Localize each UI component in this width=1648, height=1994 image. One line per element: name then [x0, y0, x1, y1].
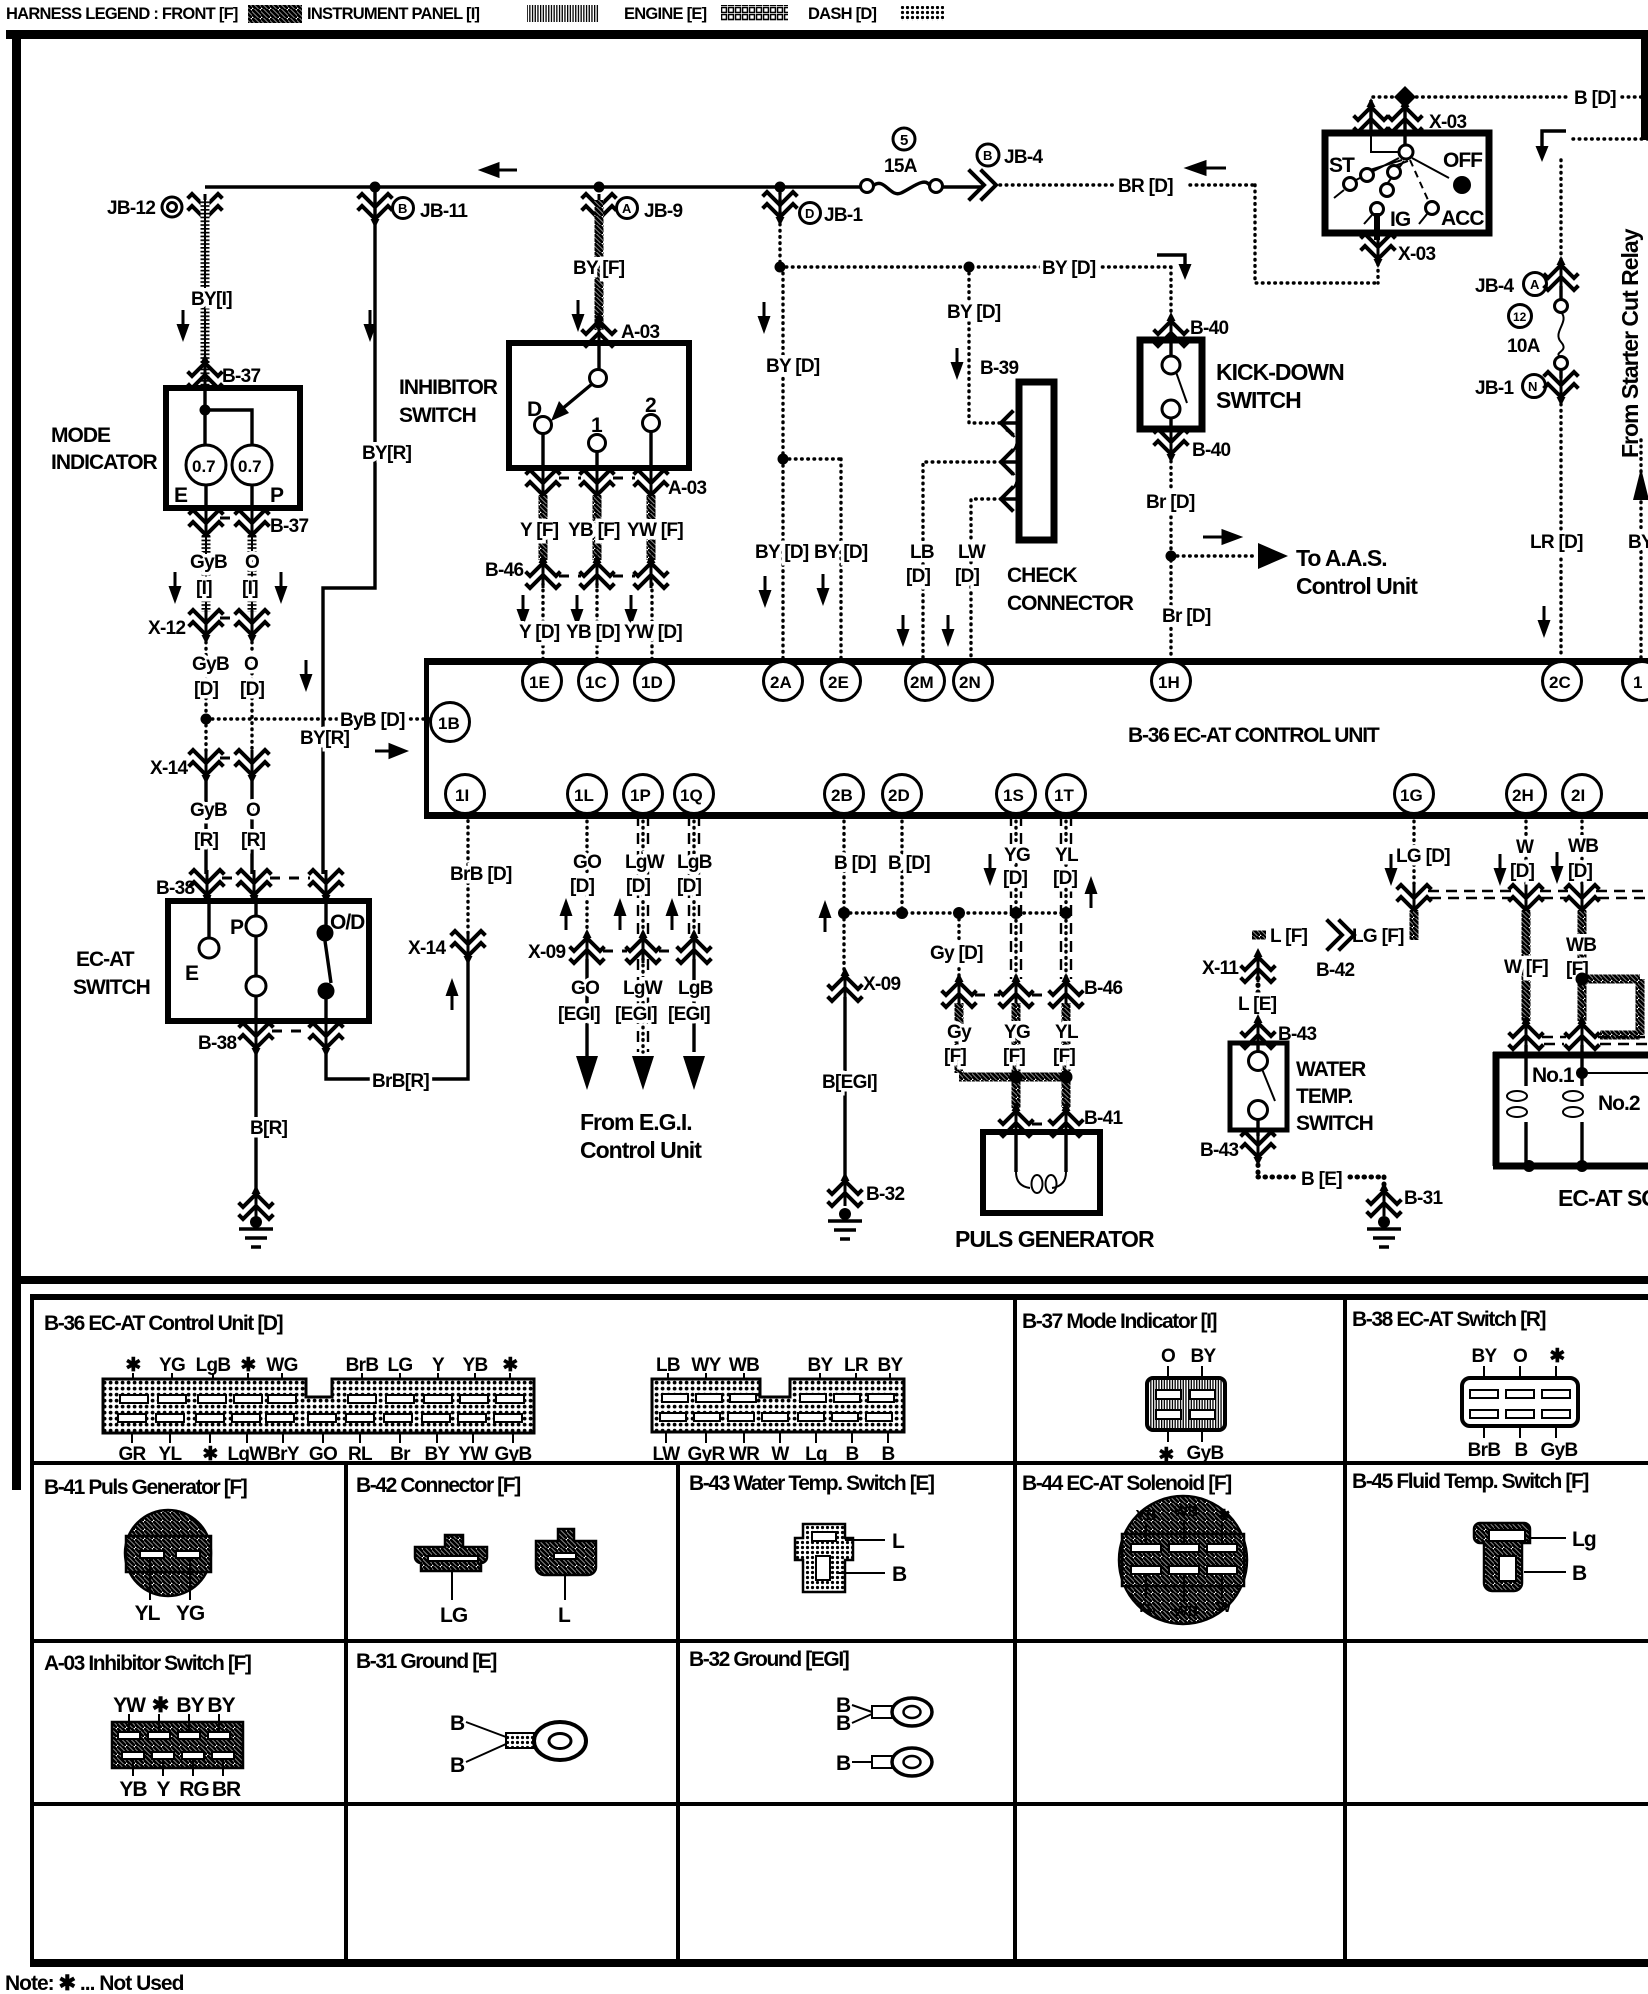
table column line x1015 — [1013, 1296, 1017, 1963]
svg-text:W [F]: W [F] — [1504, 957, 1548, 978]
connector X-14 right — [452, 931, 484, 965]
svg-text:X-11: X-11 — [1202, 958, 1239, 979]
EC-AT control unit left edge — [424, 658, 429, 819]
svg-text:W: W — [1516, 837, 1534, 858]
wire ByB [D] to pin 1B — [201, 714, 212, 725]
svg-text:A-03 Inhibitor Switch [F]: A-03 Inhibitor Switch [F] — [44, 1652, 251, 1675]
svg-text:INHIBITOR: INHIBITOR — [399, 376, 498, 399]
svg-text:B: B — [450, 1712, 465, 1735]
wire BY[I] JB-12 to B-37 — [201, 200, 210, 386]
svg-text:BY: BY — [808, 1355, 834, 1376]
svg-text:✱: ✱ — [502, 1355, 518, 1376]
svg-text:2: 2 — [645, 394, 656, 417]
svg-text:15A: 15A — [884, 156, 918, 177]
svg-text:B-39: B-39 — [980, 358, 1019, 379]
svg-text:WG: WG — [266, 1355, 297, 1376]
svg-text:B-41: B-41 — [1084, 1108, 1124, 1129]
svg-text:B[EGI]: B[EGI] — [822, 1072, 877, 1093]
svg-text:1Q: 1Q — [680, 786, 703, 805]
ground B-31 — [1368, 1182, 1400, 1216]
svg-text:2I: 2I — [1571, 786, 1585, 805]
dashed link row right — [1428, 891, 1648, 898]
svg-text:Br: Br — [390, 1444, 411, 1465]
svg-text:SWITCH: SWITCH — [73, 976, 150, 999]
svg-text:LgW: LgW — [623, 978, 663, 999]
wire B [D] from 2B — [842, 815, 845, 913]
svg-text:1D: 1D — [641, 673, 663, 692]
svg-text:MODE: MODE — [51, 424, 111, 447]
svg-text:LB: LB — [656, 1355, 680, 1376]
solenoid No.1 — [1524, 1045, 1527, 1166]
table column line x677 — [676, 1463, 680, 1963]
wire L [E] — [1256, 978, 1261, 1020]
connector B-40 top — [1155, 312, 1187, 346]
connector B-46 left — [527, 554, 559, 588]
connector B-45 drawing — [1474, 1523, 1596, 1591]
svg-text:B-46: B-46 — [485, 560, 524, 581]
junction diamond on B [D] — [1394, 86, 1416, 108]
svg-text:12: 12 — [1513, 310, 1527, 324]
svg-text:WR: WR — [729, 1444, 760, 1465]
svg-text:X-09: X-09 — [863, 974, 900, 995]
wire BY [D] to B-39 check connector — [969, 267, 1003, 423]
svg-text:Gy: Gy — [947, 1022, 972, 1043]
svg-text:0.7: 0.7 — [192, 457, 216, 476]
svg-text:O: O — [1161, 1346, 1175, 1367]
connector B-41 — [1000, 1102, 1032, 1136]
legend swatch DASH dots — [900, 6, 944, 21]
svg-text:✱: ✱ — [1158, 1445, 1174, 1466]
svg-text:2C: 2C — [1549, 673, 1571, 692]
svg-text:GR: GR — [118, 1444, 146, 1465]
svg-text:BY [F]: BY [F] — [573, 258, 625, 279]
svg-text:E: E — [174, 484, 188, 507]
svg-text:To A.A.S.: To A.A.S. — [1296, 545, 1387, 571]
svg-text:No.2: No.2 — [1598, 1092, 1640, 1115]
top bus wire — [205, 185, 982, 188]
svg-text:B-37: B-37 — [270, 516, 309, 537]
svg-text:✱: ✱ — [152, 1694, 169, 1717]
svg-text:B[R]: B[R] — [250, 1118, 288, 1139]
svg-text:GyB: GyB — [495, 1444, 532, 1465]
svg-text:INDICATOR: INDICATOR — [51, 451, 158, 474]
connector A-03 top — [583, 312, 615, 346]
svg-text:LB: LB — [910, 542, 934, 563]
svg-text:DASH [D]: DASH [D] — [808, 5, 876, 23]
svg-text:BY [D]: BY [D] — [755, 542, 809, 563]
svg-text:10A: 10A — [1507, 336, 1541, 357]
table column line x1345 — [1343, 1296, 1347, 1963]
svg-text:B-31: B-31 — [1404, 1188, 1444, 1209]
connector B-38 block — [1462, 1346, 1578, 1461]
svg-text:2A: 2A — [770, 673, 792, 692]
svg-text:1G: 1G — [1400, 786, 1423, 805]
connector B-42 drawing right — [536, 1529, 596, 1627]
wire LG [F] jog — [1410, 911, 1419, 940]
svg-text:X-03: X-03 — [1398, 244, 1435, 265]
svg-text:[R]: [R] — [194, 830, 219, 851]
corner arrow at kick-down — [1157, 255, 1185, 266]
svg-text:BY: BY — [425, 1444, 451, 1465]
svg-text:YG: YG — [1004, 1022, 1030, 1043]
wire GyB [D] — [204, 636, 207, 716]
svg-text:BrY: BrY — [267, 1444, 300, 1465]
svg-text:1T: 1T — [1054, 786, 1074, 805]
svg-text:0.7: 0.7 — [238, 457, 262, 476]
mode indicator M1 box — [166, 388, 300, 508]
wire LgB [EGI] — [692, 959, 695, 1052]
svg-text:[EGI]: [EGI] — [668, 1004, 710, 1025]
svg-text:WB: WB — [1568, 836, 1598, 857]
svg-text:B-32 Ground [EGI]: B-32 Ground [EGI] — [689, 1648, 849, 1671]
svg-text:LW: LW — [958, 542, 986, 563]
node JB-9 — [594, 182, 605, 193]
wire YL [D] from 1T — [1061, 815, 1071, 979]
svg-text:BY [D]: BY [D] — [766, 356, 820, 377]
svg-text:EC-AT SOL: EC-AT SOL — [1558, 1185, 1648, 1211]
svg-text:D: D — [805, 206, 814, 221]
svg-text:YG: YG — [176, 1602, 205, 1625]
svg-text:BY[R]: BY[R] — [362, 443, 412, 464]
svg-text:O: O — [1513, 1346, 1527, 1367]
svg-text:INSTRUMENT PANEL [I]: INSTRUMENT PANEL [I] — [307, 5, 480, 23]
wire YG [D] from 1S — [1011, 815, 1021, 979]
wire B [D] from 2D — [900, 815, 903, 913]
wire WB [F] right loop — [1582, 979, 1640, 1035]
EC-AT switch internals — [209, 896, 326, 1021]
svg-text:GO: GO — [571, 978, 599, 999]
water temp internals — [1256, 1044, 1259, 1052]
svg-text:B: B — [983, 148, 992, 163]
svg-text:1E: 1E — [529, 673, 550, 692]
connector B-37 top — [189, 354, 221, 388]
svg-text:2D: 2D — [888, 786, 910, 805]
svg-text:B-43 Water Temp. Switch [E]: B-43 Water Temp. Switch [E] — [689, 1472, 934, 1495]
wire GyB [R] — [204, 776, 207, 874]
svg-text:1L: 1L — [574, 786, 594, 805]
wire WB [D] from 2I — [1580, 815, 1583, 889]
bus flow arrow left — [482, 164, 517, 176]
svg-text:B-31 Ground [E]: B-31 Ground [E] — [356, 1650, 496, 1673]
svg-text:1: 1 — [1633, 673, 1642, 692]
svg-text:B-44 EC-AT Solenoid [F]: B-44 EC-AT Solenoid [F] — [1022, 1472, 1231, 1495]
svg-text:IG: IG — [1390, 208, 1411, 231]
wire BrB[R] — [326, 957, 468, 1079]
connector B-40 bottom — [1155, 429, 1187, 463]
svg-text:JB-11: JB-11 — [420, 201, 468, 222]
wire YW [F] — [647, 496, 656, 560]
svg-text:BY[R]: BY[R] — [300, 728, 350, 749]
wire JB-4 feed corner arrow — [1568, 137, 1648, 140]
svg-text:CHECK: CHECK — [1007, 564, 1078, 587]
connector X-09 left — [571, 929, 603, 963]
svg-text:B [D]: B [D] — [834, 853, 876, 874]
svg-text:X-12: X-12 — [148, 618, 185, 639]
svg-text:ACC: ACC — [1441, 207, 1484, 230]
outer border right stub — [1641, 30, 1648, 140]
legend swatch INSTRUMENT PANEL stripes — [527, 5, 599, 22]
wire IG out — [1374, 213, 1380, 240]
inhibitor switch box — [509, 343, 689, 468]
svg-text:WB: WB — [1174, 1603, 1199, 1620]
pins bottom row — [446, 775, 1602, 814]
svg-text:GO: GO — [573, 852, 601, 873]
svg-text:YB [F]: YB [F] — [568, 520, 620, 541]
svg-text:✱: ✱ — [1218, 1507, 1231, 1524]
connector B-36 right block — [652, 1355, 904, 1465]
legend swatch ENGINE checker — [721, 5, 788, 21]
svg-text:JB-4: JB-4 — [1004, 147, 1044, 168]
wire B [D] top right — [1373, 95, 1648, 98]
svg-text:Br [D]: Br [D] — [1162, 606, 1211, 627]
svg-text:P: P — [230, 916, 244, 939]
connector X-12 — [190, 610, 222, 644]
connector table outer top border — [30, 1294, 1648, 1300]
svg-text:WATER: WATER — [1296, 1058, 1366, 1081]
wire O [R] — [250, 776, 253, 874]
connector X-03 top — [1355, 98, 1387, 132]
schematic bottom border — [21, 1276, 1648, 1284]
svg-text:[EGI]: [EGI] — [558, 1004, 600, 1025]
svg-text:B-38: B-38 — [156, 878, 195, 899]
svg-text:BY: BY — [1628, 532, 1648, 553]
svg-text:[D]: [D] — [1568, 861, 1593, 882]
wire LgW [EGI] — [638, 959, 648, 1052]
svg-text:GyB: GyB — [1541, 1440, 1578, 1461]
svg-text:A-03: A-03 — [668, 478, 707, 499]
wire LgB [D] from 1Q (EGI style) — [689, 815, 699, 935]
wire X-03 to BR joint — [1376, 258, 1379, 283]
wire GyB dotted continues — [204, 719, 207, 752]
branch to A.A.S. — [1171, 554, 1256, 557]
wire B[R] to ground — [254, 1049, 257, 1190]
EC-AT control unit bottom line — [424, 812, 1648, 819]
svg-text:X-14: X-14 — [408, 938, 446, 959]
svg-text:[D]: [D] — [570, 876, 595, 897]
connector B-43 bottom — [1242, 1132, 1274, 1166]
node JB-4 B — [977, 144, 999, 166]
svg-text:2B: 2B — [831, 786, 853, 805]
wire B[EGI] down from bus — [842, 913, 845, 973]
outer border left — [12, 30, 21, 1490]
svg-text:TEMP.: TEMP. — [1296, 1085, 1353, 1108]
connector B-37 block — [1147, 1346, 1225, 1466]
svg-text:Y: Y — [432, 1355, 445, 1376]
svg-text:Control Unit: Control Unit — [580, 1137, 702, 1163]
svg-text:B-40: B-40 — [1192, 440, 1231, 461]
wire LgW [D] from 1P (EGI style) — [638, 815, 648, 935]
svg-text:B [E]: B [E] — [1301, 1169, 1342, 1190]
svg-text:YW [F]: YW [F] — [627, 520, 683, 541]
wire Gy [F] — [959, 1003, 1066, 1077]
connector B-38 bottom — [240, 1023, 272, 1057]
wire B [E] to B-31 — [1258, 1158, 1384, 1188]
svg-text:LR: LR — [844, 1355, 869, 1376]
svg-text:P: P — [270, 484, 284, 507]
svg-text:BrB[R]: BrB[R] — [372, 1071, 429, 1092]
svg-text:GyB: GyB — [1187, 1443, 1224, 1464]
svg-text:B-36 EC-AT CONTROL UNIT: B-36 EC-AT CONTROL UNIT — [1128, 724, 1380, 747]
svg-text:GyB: GyB — [190, 552, 227, 573]
wire GO [D] from 1L — [585, 815, 588, 935]
svg-text:OFF: OFF — [1443, 149, 1483, 172]
svg-text:2M: 2M — [910, 673, 934, 692]
wire GyB [I] — [202, 536, 211, 612]
svg-text:1B: 1B — [438, 714, 460, 733]
svg-text:B-40: B-40 — [1190, 318, 1229, 339]
svg-text:1I: 1I — [455, 786, 469, 805]
svg-text:[F]: [F] — [1003, 1046, 1026, 1067]
svg-text:WB: WB — [729, 1355, 759, 1376]
wire YB [D] to 1C — [595, 584, 598, 662]
connector chevron 1G — [1398, 885, 1430, 919]
connector B-43 top — [1242, 1014, 1274, 1048]
svg-text:LR [D]: LR [D] — [1530, 532, 1583, 553]
wire YG [F] — [1012, 1003, 1021, 1108]
table row line 1 — [32, 1461, 1648, 1465]
connector B-37 bottom — [190, 510, 222, 544]
svg-text:A: A — [1530, 277, 1540, 292]
svg-text:KICK-DOWN: KICK-DOWN — [1216, 359, 1344, 385]
svg-text:B-43: B-43 — [1200, 1140, 1239, 1161]
svg-text:L [E]: L [E] — [1238, 994, 1277, 1015]
svg-text:B-41 Puls Generator [F]: B-41 Puls Generator [F] — [44, 1476, 247, 1499]
svg-text:YB: YB — [463, 1355, 488, 1376]
svg-text:A-03: A-03 — [621, 322, 660, 343]
svg-text:B-38 EC-AT Switch [R]: B-38 EC-AT Switch [R] — [1352, 1308, 1545, 1331]
dotted bus joining 2B 2D 1S 1T — [844, 911, 1066, 914]
svg-text:[D]: [D] — [1003, 868, 1028, 889]
wire BY [D] to 2A and 2E — [783, 267, 841, 662]
wire BR [D] — [1000, 185, 1379, 283]
svg-text:2N: 2N — [959, 673, 981, 692]
svg-text:ENGINE [E]: ENGINE [E] — [624, 5, 707, 23]
svg-text:BrB: BrB — [346, 1355, 379, 1376]
wire Y [D] to 1E — [541, 584, 544, 662]
connector B-36 left block — [103, 1355, 534, 1465]
puls generator box — [983, 1132, 1100, 1213]
EC-AT solenoid box — [1493, 1052, 1648, 1166]
svg-text:A: A — [622, 201, 632, 216]
svg-text:YL: YL — [1055, 845, 1079, 866]
svg-text:B-42: B-42 — [1316, 960, 1355, 981]
mode indicator internals — [205, 388, 252, 445]
svg-text:YW: YW — [458, 1444, 488, 1465]
svg-text:PULS GENERATOR: PULS GENERATOR — [955, 1226, 1155, 1252]
svg-text:WB: WB — [1566, 935, 1596, 956]
svg-text:✱: ✱ — [1549, 1346, 1565, 1367]
svg-text:B-37 Mode Indicator [I]: B-37 Mode Indicator [I] — [1022, 1310, 1217, 1333]
connector chevrons 2H 2I — [1510, 885, 1542, 919]
wire BY[R] JB-11 branch — [323, 187, 375, 874]
svg-text:[F]: [F] — [1053, 1046, 1076, 1067]
connector X-11 — [1242, 948, 1274, 982]
svg-text:JB-4: JB-4 — [1475, 276, 1515, 297]
svg-text:Gy [D]: Gy [D] — [930, 943, 983, 964]
svg-text:X-09: X-09 — [528, 942, 565, 963]
table row line 2 — [32, 1639, 1648, 1643]
svg-text:2H: 2H — [1512, 786, 1534, 805]
svg-text:[D]: [D] — [955, 566, 980, 587]
svg-text:1H: 1H — [1158, 673, 1180, 692]
svg-text:L [F]: L [F] — [1270, 926, 1308, 947]
svg-text:Lg: Lg — [1572, 1528, 1596, 1551]
connector X-03 bottom — [1362, 234, 1394, 268]
svg-text:B-42 Connector [F]: B-42 Connector [F] — [356, 1474, 520, 1497]
svg-text:B: B — [836, 1712, 851, 1735]
svg-text:YL: YL — [1055, 1022, 1079, 1043]
svg-text:B: B — [450, 1754, 465, 1777]
wire O [I] — [248, 536, 257, 612]
wire BY [D] horizontal kick-down feed — [780, 187, 1171, 318]
svg-text:GyB: GyB — [192, 654, 229, 675]
svg-text:LgW: LgW — [625, 852, 665, 873]
svg-text:LG [F]: LG [F] — [1352, 926, 1404, 947]
table row line 3 — [32, 1802, 1648, 1806]
svg-text:EC-AT: EC-AT — [76, 948, 135, 971]
wire Br [D] to 1H — [1169, 455, 1172, 658]
inhibitor internals — [597, 343, 600, 370]
wire BY right edge — [1639, 440, 1642, 658]
connector X-14 — [190, 750, 222, 784]
svg-text:BR [D]: BR [D] — [1118, 176, 1173, 197]
svg-text:[D]: [D] — [1053, 868, 1078, 889]
svg-text:B-46: B-46 — [1084, 978, 1123, 999]
svg-text:B [D]: B [D] — [888, 853, 930, 874]
svg-text:[D]: [D] — [677, 876, 702, 897]
wire WB [F] — [1578, 911, 1587, 1021]
svg-text:Note: ✱ ... Not Used: Note: ✱ ... Not Used — [5, 1972, 184, 1994]
flow arrow left on BR wire — [1188, 162, 1226, 174]
connector A-03 bottom — [527, 470, 559, 504]
ignition internals — [1371, 133, 1398, 152]
connector B-43 drawing — [795, 1524, 907, 1592]
svg-text:LW: LW — [652, 1444, 680, 1465]
table column line x345 — [344, 1463, 348, 1963]
EC-AT control unit top line — [424, 658, 1648, 665]
svg-text:LgW: LgW — [227, 1444, 267, 1465]
svg-text:BY: BY — [207, 1694, 235, 1717]
svg-text:Control Unit: Control Unit — [1296, 573, 1418, 599]
svg-text:YG: YG — [1004, 845, 1030, 866]
svg-text:[F]: [F] — [944, 1046, 967, 1067]
svg-text:B: B — [881, 1444, 894, 1465]
kick-down switch box — [1140, 340, 1202, 429]
fuse 15A — [861, 180, 874, 193]
svg-text:YG: YG — [159, 1355, 185, 1376]
solenoid No.2 — [1580, 1045, 1583, 1166]
svg-text:CONNECTOR: CONNECTOR — [1007, 592, 1134, 615]
svg-text:W: W — [1217, 1599, 1232, 1616]
svg-text:[I]: [I] — [196, 578, 212, 599]
wire Y [F] — [539, 496, 548, 560]
svg-text:BY [D]: BY [D] — [814, 542, 868, 563]
svg-text:YL: YL — [1136, 1599, 1155, 1616]
svg-text:YB: YB — [1136, 1507, 1157, 1524]
connector B-44 drawing — [1119, 1496, 1247, 1624]
svg-text:L: L — [892, 1530, 905, 1553]
wire LG [D] from 1G — [1412, 815, 1415, 889]
svg-text:YW [D]: YW [D] — [624, 622, 682, 643]
wire O [D] — [250, 636, 253, 752]
svg-text:B-45 Fluid Temp. Switch [F]: B-45 Fluid Temp. Switch [F] — [1352, 1470, 1588, 1493]
svg-text:B-38: B-38 — [198, 1033, 237, 1054]
svg-text:JB-1: JB-1 — [824, 205, 864, 226]
svg-text:D: D — [527, 398, 542, 421]
svg-text:SWITCH: SWITCH — [399, 404, 476, 427]
node JB-1 — [775, 182, 786, 193]
svg-text:WB: WB — [1174, 1503, 1199, 1520]
